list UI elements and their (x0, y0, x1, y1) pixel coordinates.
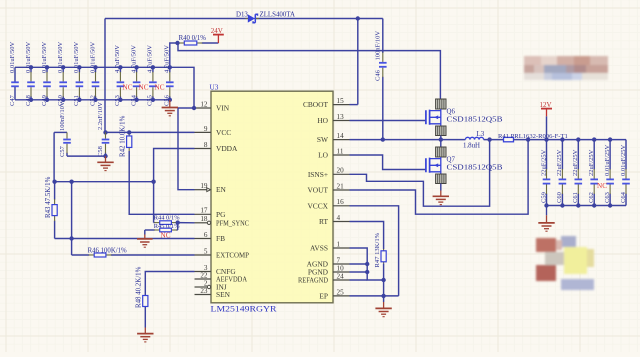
junction VIN pin node (192, 106, 196, 110)
svg-text:ZLLS400TA: ZLLS400TA (260, 11, 295, 18)
junction node VDDA join (151, 180, 155, 184)
wire SW to L3 (441, 139, 466, 141)
svg-text:CSD18512Q5B: CSD18512Q5B (447, 164, 504, 171)
svg-text:22: 22 (200, 271, 208, 279)
svg-text:C59: C59 (540, 192, 547, 203)
capacitor C57 100nF/10V (54, 101, 71, 157)
svg-text:17: 17 (200, 207, 208, 215)
capacitor C48 0.01uF/50V (25, 41, 35, 106)
resistor R40 0/1% (178, 42, 180, 44)
junction C51 top/bottom (77, 65, 81, 69)
svg-text:0.01uF/25V: 0.01uF/25V (604, 144, 611, 176)
resistor R47 13K/1% (374, 232, 386, 267)
transistor Q6 CSD18512Q5B (426, 99, 503, 140)
svg-text:D13: D13 (236, 11, 248, 18)
svg-text:15: 15 (337, 97, 345, 105)
svg-text:24: 24 (337, 272, 345, 280)
svg-text:23: 23 (200, 287, 208, 295)
capacitor C56 4.7uF/50V (164, 45, 174, 106)
wire R40 node to Q6 drain (178, 43, 440, 99)
svg-text:C60: C60 (556, 192, 563, 203)
capacitor C62 22uF/25V (588, 140, 598, 206)
svg-text:SW: SW (317, 135, 328, 144)
power symbol 12V (540, 101, 553, 140)
ground input bank (162, 100, 178, 116)
junction PGND (365, 270, 369, 274)
svg-text:VOUT: VOUT (307, 186, 328, 195)
svg-text:C61: C61 (572, 192, 579, 203)
wire CNFG to R48 (145, 272, 194, 296)
junction R40 left node (175, 41, 179, 45)
transistor Q7 CSD18512Q5B (426, 140, 503, 184)
svg-text:NC: NC (597, 182, 607, 190)
svg-text:CSD18512Q5B: CSD18512Q5B (447, 116, 504, 123)
capacitor C60 22uF/25V (556, 140, 566, 206)
capacitor C50 0.01uF/50V (57, 41, 67, 106)
junction SW Q6 (439, 137, 443, 141)
diode lead olive (246, 18, 260, 20)
wire VCCX to EP (350, 206, 399, 296)
ground R48 (137, 328, 153, 342)
resistor R43 47.5K/1% (45, 176, 57, 238)
svg-text:7: 7 (337, 256, 341, 264)
wire R42 to PG pin (129, 151, 194, 214)
capacitor C53 4.7uF/50V (114, 45, 124, 106)
resistor R48 40.2K/1% (136, 266, 148, 308)
wire node row 181 (54, 181, 154, 183)
svg-text:R43 47.5K/1%: R43 47.5K/1% (45, 176, 52, 218)
junction R47 gnd a (381, 278, 385, 282)
svg-text:R42 10.0K/1%: R42 10.0K/1% (120, 115, 127, 157)
junction C57 C58 gnd (103, 154, 107, 158)
svg-text:1.8uH: 1.8uH (463, 142, 480, 149)
resistor R46 100K/1% (72, 248, 195, 257)
svg-text:22uF/25V: 22uF/25V (572, 149, 579, 176)
svg-text:AVSS: AVSS (310, 244, 328, 253)
wire output gnd bus (547, 205, 627, 207)
wire R45 left to ground (144, 230, 146, 235)
wire 12V output bus (514, 139, 627, 141)
wire Q7 source to ground (440, 184, 442, 191)
svg-text:EP: EP (319, 291, 328, 300)
wire R48 to ground (144, 307, 146, 328)
svg-text:NC: NC (161, 231, 171, 239)
svg-text:CBOOT: CBOOT (303, 100, 329, 109)
svg-text:U3: U3 (210, 83, 219, 92)
svg-text:LM25149RGYR: LM25149RGYR (211, 305, 278, 314)
svg-text:100nF/10V: 100nF/10V (59, 101, 66, 131)
junction ISNS+ tap (487, 137, 491, 141)
svg-text:VCC: VCC (216, 128, 231, 137)
resistor R45 0/1% (145, 223, 180, 232)
svg-text:NC: NC (139, 84, 149, 92)
svg-text:22uF/25V: 22uF/25V (588, 149, 595, 176)
resistor R41 PRL1632-R006-F-T1 (498, 133, 568, 142)
wire AVSS to gnd bus (350, 248, 384, 280)
svg-text:R40 0/1%: R40 0/1% (179, 35, 207, 42)
svg-text:C62: C62 (588, 192, 595, 203)
svg-text:14: 14 (337, 132, 345, 140)
capacitor C49 0.01uF/50V (41, 41, 51, 106)
wire C57 C58 bottoms (67, 155, 106, 157)
junction C54 top/bottom (134, 65, 138, 69)
svg-text:20: 20 (337, 167, 345, 175)
svg-text:8: 8 (204, 141, 208, 149)
junction R47 gnd b (381, 294, 385, 298)
svg-text:LO: LO (318, 151, 329, 160)
diode D13 ZLLS400TA (236, 11, 295, 23)
ground Q7 (433, 191, 449, 205)
ground VCC caps (97, 156, 113, 171)
wire VCC top to bootstrap diode (105, 18, 248, 20)
junction C53 top/bottom (118, 65, 122, 69)
U3 pin stubs left with pin numbers (195, 100, 212, 295)
junction AGND (365, 262, 369, 266)
power symbol 24V (211, 27, 224, 43)
wire VOUT sense (350, 140, 529, 215)
junction node 71 (69, 180, 73, 184)
capacitor C59 22uF/25V (540, 140, 550, 206)
svg-text:R46 100K/1%: R46 100K/1% (88, 248, 127, 255)
wire REFAGND (350, 279, 368, 281)
wire SW row (350, 139, 441, 141)
svg-text:VIN: VIN (216, 104, 230, 113)
wire LO to Q7 gate (350, 155, 426, 170)
junction C48 top/bottom (29, 65, 33, 69)
ground output caps (538, 206, 554, 232)
blurred logo bottom right (536, 236, 594, 290)
wire VIN top bus (15, 67, 194, 108)
svg-text:22uF/25V: 22uF/25V (540, 149, 547, 176)
svg-text:HO: HO (317, 116, 328, 125)
capacitor C58 2.2nF/10V (97, 102, 109, 157)
blurred watermark top right (524, 56, 608, 80)
junction R42 top (127, 130, 131, 134)
svg-text:PFM_SYNC: PFM_SYNC (216, 218, 249, 227)
capacitor C47 0.01uF/50V (9, 41, 19, 106)
capacitor C61 22uF/25V (572, 140, 582, 206)
svg-text:VDDA: VDDA (216, 144, 238, 153)
wire PGND (350, 271, 368, 273)
wire ISNS+ sense (350, 140, 490, 207)
svg-text:NC: NC (123, 84, 133, 92)
svg-text:25: 25 (337, 288, 345, 296)
svg-text:21: 21 (337, 182, 345, 190)
capacitor C52 0.01uF/50V (89, 41, 99, 106)
wire AGND (350, 263, 368, 265)
wire CBOOT vertical (357, 19, 359, 105)
junction C52 top/bottom (93, 65, 97, 69)
capacitor C63 0.01uF/25V (604, 140, 614, 206)
svg-text:C57: C57 (59, 145, 66, 157)
wire node71 vertical (71, 182, 73, 255)
svg-text:24V: 24V (211, 27, 223, 35)
svg-text:C58: C58 (97, 146, 104, 157)
svg-text:12: 12 (200, 100, 208, 108)
svg-text:12V: 12V (540, 101, 552, 109)
wire R47 to ground (383, 264, 385, 302)
junction C60 (560, 137, 564, 141)
capacitor C54 4.7uF/50V (130, 45, 140, 106)
svg-text:100nF/10V: 100nF/10V (374, 31, 381, 61)
svg-text:10: 10 (337, 264, 345, 272)
op-amp U1 IC U3 LM25149RGYR body (210, 83, 334, 314)
capacitor C46 100nF/10V (382, 19, 384, 53)
junction C58 top (103, 130, 107, 134)
svg-text:1: 1 (337, 240, 341, 248)
wire CBOOT pin (350, 104, 358, 106)
wire C46 to SW (381, 137, 385, 141)
svg-text:18: 18 (200, 215, 208, 223)
svg-text:9: 9 (204, 125, 208, 133)
wire R45 up to R44 node (177, 223, 179, 230)
junction C63 (608, 137, 612, 141)
svg-text:EXTCOMP: EXTCOMP (216, 251, 249, 260)
svg-text:0.01uF/50V: 0.01uF/50V (9, 41, 16, 73)
no-connect NC labels C53 C54 C55 (123, 84, 165, 92)
svg-text:FB: FB (216, 234, 225, 243)
wire L3 to R41 (484, 139, 504, 141)
svg-text:2.2nF/10V: 2.2nF/10V (97, 102, 104, 130)
junction node y181 (52, 180, 56, 184)
junction VOUT tap (526, 137, 530, 141)
svg-text:EN: EN (216, 185, 227, 194)
wire HO to Q6 gate (350, 120, 426, 122)
capacitor C51 0.01uF/50V (73, 41, 83, 106)
junction C62 (592, 137, 596, 141)
wire FB row (55, 238, 195, 240)
junction C50 top/bottom (61, 65, 65, 69)
wire RT to R47 (350, 222, 384, 250)
junction CBOOT node (356, 16, 360, 20)
svg-text:R48 40.2K/1%: R48 40.2K/1% (136, 266, 143, 308)
wire VDDA to R44 (154, 149, 195, 223)
resistor R42 10.0K/1% (120, 115, 132, 157)
svg-text:R44 0/1%: R44 0/1% (154, 215, 180, 222)
capacitor C55 4.7uF/50V (147, 45, 157, 106)
svg-text:4: 4 (337, 214, 341, 222)
junction C55 top/bottom (151, 65, 155, 69)
ground R47 EP (375, 302, 391, 317)
svg-text:19: 19 (200, 182, 208, 190)
wire GND bottom bus (15, 99, 170, 101)
svg-text:NC: NC (155, 84, 165, 92)
svg-text:ISNS+: ISNS+ (308, 170, 328, 179)
wire VIN pin (178, 107, 195, 109)
svg-text:C63: C63 (604, 192, 611, 203)
svg-text:22uF/25V: 22uF/25V (556, 149, 563, 176)
svg-text:R47 13K/1%: R47 13K/1% (374, 232, 381, 267)
resistor R44 0/1% (154, 215, 181, 225)
svg-text:6: 6 (204, 231, 208, 239)
ground R45 (137, 235, 153, 248)
svg-text:SEN: SEN (216, 290, 231, 299)
svg-text:0.01uF/25V: 0.01uF/25V (620, 144, 627, 176)
svg-text:VCCX: VCCX (307, 201, 328, 210)
svg-text:REFAGND: REFAGND (298, 276, 329, 285)
svg-text:Q7: Q7 (447, 156, 456, 163)
svg-text:C46: C46 (374, 69, 381, 81)
U3 pin stubs right with pin numbers (333, 97, 350, 296)
wire diode cathode to CBOOT junction (256, 18, 383, 20)
svg-text:5: 5 (204, 247, 208, 255)
wire R40 node to VIN bus (170, 43, 178, 67)
svg-text:C64: C64 (620, 191, 627, 203)
svg-text:C47: C47 (9, 94, 16, 106)
junction C56 top/bottom (168, 65, 172, 69)
svg-text:13: 13 (337, 113, 345, 121)
capacitor C64 0.01uF/25V (620, 140, 630, 206)
junction FB node (69, 236, 73, 240)
wire VCC pin row (106, 131, 195, 133)
svg-text:16: 16 (337, 198, 345, 206)
junction R44 R45 right (176, 220, 180, 224)
U3 pin names (216, 100, 329, 300)
wire C57 to R43 vertical (53, 132, 55, 181)
junction C49 top/bottom (45, 65, 49, 69)
junction C59 (544, 137, 548, 141)
wire EP row (350, 295, 399, 297)
junction C61 (576, 137, 580, 141)
wire VIN to EN vertical (178, 108, 195, 190)
wire R44 node to PFM_SYNC (178, 222, 195, 224)
svg-text:11: 11 (337, 147, 344, 155)
svg-text:L3: L3 (477, 131, 485, 138)
svg-text:Q6: Q6 (447, 108, 456, 115)
wire VCC vertical to C58 (104, 19, 106, 133)
svg-text:RT: RT (319, 217, 328, 226)
inductor L3 1.8uH (463, 131, 485, 150)
